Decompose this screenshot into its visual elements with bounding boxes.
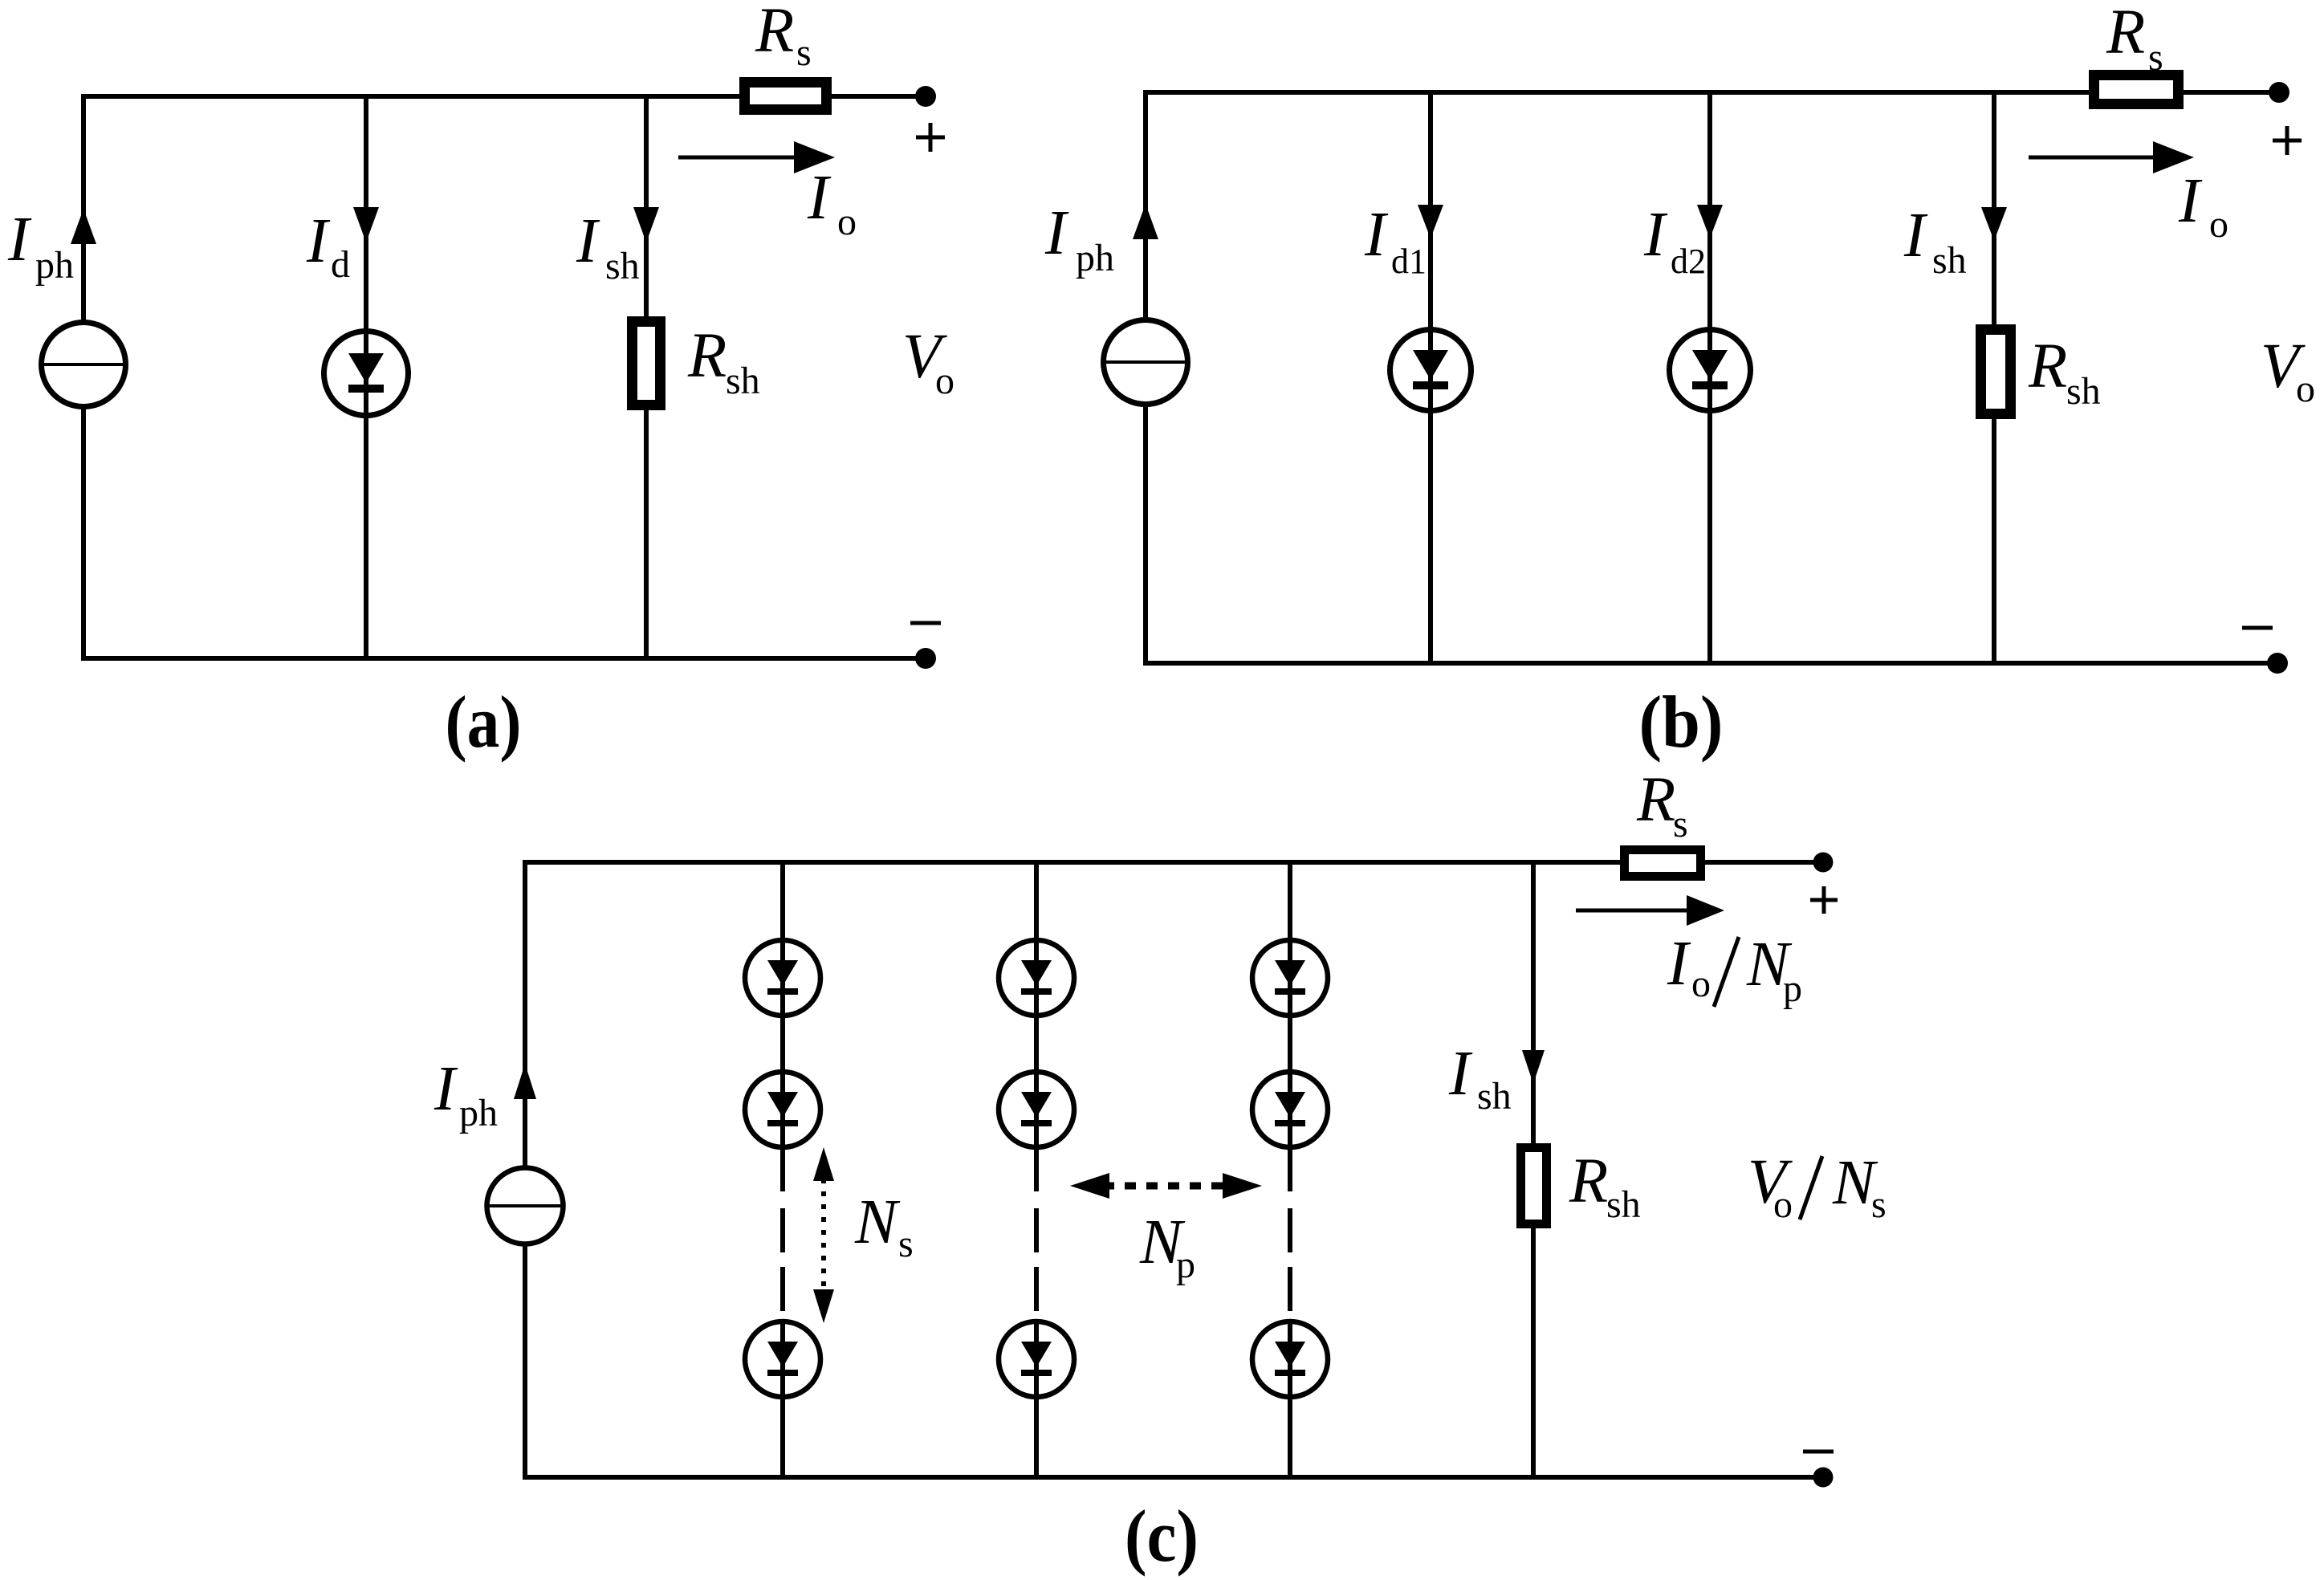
svg-text:s: s: [1673, 803, 1688, 845]
node - terminal (b): [2267, 653, 2288, 674]
diode D21 (c): [999, 940, 1074, 1016]
current source Iph (a): [42, 323, 126, 407]
wire shunt branch upper (b): [1992, 92, 1996, 329]
svg-text:o: o: [837, 201, 857, 243]
wire diode column 3 dashed segment (c): [1288, 1208, 1292, 1319]
wire diode column 1 dashed segment (c): [780, 1208, 785, 1319]
resistor Rs (b): [2089, 70, 2184, 109]
wire top bus right segment (c): [1705, 860, 1823, 865]
label Rs (c): [1636, 765, 1688, 845]
svg-text:o: o: [1691, 963, 1711, 1005]
label Vo/Ns (c): [1748, 1147, 1886, 1226]
label Io (a): [807, 163, 857, 243]
diode D33 (c): [1252, 1321, 1328, 1397]
svg-text:o: o: [1773, 1183, 1793, 1226]
svg-text:I: I: [433, 1054, 458, 1124]
arrow Np dotted span (c): [1070, 1173, 1262, 1199]
svg-text:s: s: [796, 31, 812, 74]
diode D1 (a): [324, 332, 409, 416]
wire shunt branch upper (c): [1531, 862, 1536, 1148]
svg-text:I: I: [1448, 1039, 1473, 1109]
svg-text:I: I: [807, 163, 832, 233]
svg-text:sh: sh: [2066, 370, 2101, 413]
wire bottom bus (b): [1146, 661, 2279, 666]
wire top bus (c): [525, 860, 1620, 865]
svg-text:I: I: [1364, 200, 1389, 270]
wire top bus (b): [1146, 90, 2089, 95]
diode D23 (c): [999, 1321, 1074, 1397]
wire diode column 2 dashed segment (c): [1034, 1208, 1039, 1319]
arrow Ish down (a): [633, 207, 659, 242]
arrow Io (a): [678, 141, 835, 173]
wire diode 1 branch (b): [1428, 92, 1433, 663]
svg-text:sh: sh: [1932, 239, 1967, 282]
label Np (c): [1139, 1207, 1195, 1286]
current source Iph (c): [487, 1168, 564, 1244]
label Io (b): [2178, 166, 2228, 246]
svg-text:I: I: [2178, 166, 2203, 236]
node + terminal (b): [2269, 82, 2289, 103]
arrow Id2 down (b): [1697, 205, 1723, 238]
svg-text:I: I: [1643, 200, 1668, 270]
svg-text:ph: ph: [35, 244, 74, 287]
resistor Rs (a): [739, 77, 832, 115]
svg-text:R: R: [1636, 765, 1675, 835]
node - terminal (a): [915, 648, 936, 669]
label Iph (b): [1044, 198, 1114, 279]
minus sign (b): [2242, 626, 2273, 630]
minus sign (c): [1803, 1450, 1834, 1454]
arrow Ish down (b): [1981, 207, 2007, 241]
svg-text:I: I: [1903, 201, 1928, 271]
diode D1 (b): [1390, 330, 1471, 411]
label Ish (c): [1448, 1039, 1512, 1118]
svg-text:sh: sh: [1477, 1075, 1512, 1118]
svg-text:N: N: [854, 1187, 901, 1257]
svg-text:R: R: [755, 0, 794, 66]
diode D11 (c): [745, 940, 820, 1016]
resistor Rs (c): [1620, 845, 1705, 881]
arrow Io (b): [2029, 141, 2194, 173]
arrow Id down (a): [353, 207, 379, 242]
arrow Iph up (b): [1133, 204, 1158, 239]
arrow Iph up (a): [71, 209, 96, 244]
svg-text:o: o: [935, 360, 954, 402]
diode D13 (c): [745, 1321, 820, 1397]
label Ns (c): [854, 1187, 914, 1265]
plus sign (c): [1810, 886, 1838, 914]
label Id2 (b): [1643, 200, 1706, 281]
svg-text:p: p: [1783, 967, 1802, 1010]
svg-text:s: s: [2148, 36, 2163, 79]
wire top bus right segment (b): [2183, 90, 2279, 95]
diode D31 (c): [1252, 940, 1328, 1016]
wire shunt branch lower (b): [1992, 414, 1996, 663]
svg-text:I: I: [306, 206, 331, 276]
svg-text:s: s: [898, 1223, 914, 1265]
wire bottom bus (a): [83, 656, 926, 661]
wire shunt branch lower (a): [644, 405, 649, 658]
label Ish (a): [576, 206, 640, 287]
resistor Rsh (b): [1976, 324, 2016, 419]
label Id (a): [306, 206, 350, 286]
svg-text:o: o: [2296, 368, 2315, 410]
caption (b): [1639, 681, 1724, 763]
node - terminal (c): [1813, 1468, 1834, 1488]
svg-text:sh: sh: [726, 360, 760, 402]
wire diode column 3 upper (c): [1288, 862, 1292, 1191]
label Iph (c): [433, 1054, 498, 1134]
svg-text:p: p: [1176, 1244, 1195, 1286]
svg-text:s: s: [1871, 1183, 1886, 1226]
minus sign (a): [910, 621, 941, 625]
svg-text:(a): (a): [446, 681, 522, 763]
label Rs (a): [755, 0, 812, 74]
wire diode branch (a): [364, 96, 368, 658]
svg-text:I: I: [1044, 198, 1069, 268]
wire top bus (a): [83, 94, 739, 99]
label Rsh (c): [1569, 1146, 1641, 1226]
wire left branch upper (a): [81, 94, 86, 320]
svg-text:d1: d1: [1391, 242, 1427, 281]
svg-text:ph: ph: [459, 1092, 498, 1134]
svg-text:(c): (c): [1125, 1495, 1199, 1577]
svg-text:I: I: [1667, 929, 1691, 999]
svg-text:d: d: [331, 243, 350, 286]
wire left branch lower (c): [523, 1246, 527, 1480]
wire left branch upper (b): [1143, 90, 1148, 318]
plus sign (a): [916, 123, 945, 152]
svg-text:sh: sh: [605, 245, 640, 287]
diode D12 (c): [745, 1072, 820, 1147]
wire shunt branch upper (a): [644, 96, 649, 321]
diode D32 (c): [1252, 1072, 1328, 1147]
plus sign (b): [2273, 126, 2302, 155]
svg-text:o: o: [2209, 203, 2228, 246]
wire diode column 1 lower (c): [780, 1319, 785, 1477]
wire diode 2 branch (b): [1707, 92, 1712, 663]
label Iph (a): [7, 205, 74, 287]
svg-text:I: I: [576, 206, 600, 276]
diode D2 (b): [1670, 330, 1751, 411]
label Vo (b): [2261, 332, 2315, 410]
label Io/Np (c): [1667, 929, 1802, 1010]
wire top bus right segment (a): [832, 94, 926, 99]
current source Iph (b): [1104, 320, 1188, 405]
svg-text:sh: sh: [1606, 1183, 1641, 1226]
wire diode column 3 lower (c): [1288, 1319, 1292, 1477]
node + terminal (c): [1813, 853, 1834, 873]
caption (c): [1125, 1495, 1199, 1577]
wire left branch lower (b): [1143, 406, 1148, 666]
caption (a): [446, 681, 522, 763]
label Id1 (b): [1364, 200, 1427, 281]
wire diode column 2 upper (c): [1034, 862, 1039, 1191]
svg-text:I: I: [7, 205, 32, 275]
label Rsh (a): [687, 321, 760, 402]
label Rsh (b): [2028, 332, 2101, 413]
label Rs (b): [2106, 0, 2163, 79]
wire diode column 1 upper (c): [780, 862, 785, 1191]
arrow Id1 down (b): [1418, 205, 1443, 238]
arrow Ns dotted span (c): [813, 1147, 834, 1323]
wire left branch lower (a): [81, 409, 86, 661]
label Vo (a): [902, 322, 954, 402]
svg-text:ph: ph: [1076, 237, 1114, 279]
label Ish (b): [1903, 201, 1967, 282]
svg-text:(b): (b): [1639, 681, 1724, 763]
arrow Iph up (c): [514, 1064, 536, 1099]
svg-text:R: R: [687, 321, 727, 391]
arrow Io/Np (c): [1576, 895, 1724, 926]
wire bottom bus (c): [525, 1475, 1823, 1480]
wire shunt branch lower (c): [1531, 1224, 1536, 1477]
resistor Rsh (c): [1516, 1143, 1551, 1228]
node + terminal (a): [915, 86, 936, 107]
svg-text:R: R: [2106, 0, 2145, 67]
svg-text:R: R: [1569, 1146, 1608, 1216]
diode D22 (c): [999, 1072, 1074, 1147]
svg-text:R: R: [2028, 332, 2067, 401]
wire left branch upper (c): [523, 860, 527, 1166]
wire diode column 2 lower (c): [1034, 1319, 1039, 1477]
resistor Rsh (a): [627, 316, 665, 410]
svg-text:d2: d2: [1671, 242, 1706, 281]
arrow Ish down (c): [1522, 1050, 1545, 1084]
